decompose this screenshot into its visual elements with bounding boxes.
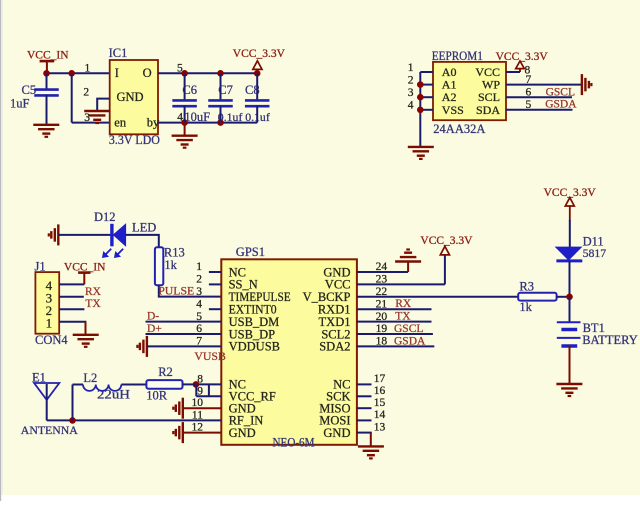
- wire: [158, 122, 257, 124]
- junction: [217, 119, 224, 126]
- svg-text:R3: R3: [519, 279, 534, 293]
- wire: [506, 84, 582, 86]
- svg-text:VCC_3.3V: VCC_3.3V: [420, 235, 473, 247]
- wire: [183, 407, 222, 409]
- svg-text:en: en: [114, 116, 127, 130]
- ground: [172, 123, 198, 148]
- wire: [147, 345, 221, 347]
- junction: [193, 381, 200, 388]
- svg-text:1k: 1k: [519, 300, 532, 314]
- svg-text:VCC_IN: VCC_IN: [27, 49, 69, 61]
- svg-text:TX: TX: [395, 311, 411, 323]
- svg-text:RX: RX: [85, 286, 102, 298]
- pin 2 stub: [209, 283, 221, 285]
- ground: [582, 74, 592, 95]
- wire: [357, 283, 445, 285]
- junction: [68, 70, 75, 77]
- pin stub: [357, 407, 372, 409]
- wire: [159, 285, 222, 296]
- junction: [217, 70, 224, 77]
- svg-text:3: 3: [84, 112, 90, 124]
- svg-text:1: 1: [408, 62, 414, 74]
- svg-text:VDDUSB: VDDUSB: [229, 340, 280, 354]
- svg-text:RX: RX: [395, 298, 412, 310]
- ground: [408, 147, 434, 159]
- svg-text:VCC_3.3V: VCC_3.3V: [496, 51, 549, 63]
- wire: [58, 234, 110, 236]
- svg-text:D12: D12: [94, 210, 116, 224]
- gps module GPS1: [221, 259, 357, 445]
- wire: [557, 296, 570, 298]
- svg-text:1: 1: [85, 63, 91, 75]
- ground: [73, 335, 99, 347]
- junction: [566, 294, 573, 301]
- svg-text:CON4: CON4: [35, 333, 68, 347]
- wire: [47, 419, 222, 421]
- pin stub: [357, 419, 372, 421]
- svg-text:2: 2: [408, 74, 414, 86]
- wire: [569, 297, 571, 323]
- pin stub: [357, 395, 372, 397]
- svg-text:I: I: [115, 66, 119, 80]
- svg-text:SDA: SDA: [476, 103, 500, 117]
- wire: [420, 96, 433, 98]
- svg-text:GND: GND: [229, 426, 256, 440]
- junction: [181, 70, 188, 77]
- svg-text:1k: 1k: [164, 258, 177, 272]
- ground: [33, 125, 59, 137]
- svg-text:17: 17: [374, 373, 386, 385]
- ground: [556, 384, 582, 396]
- wire: [85, 322, 87, 335]
- svg-text:3.3V LDO: 3.3V LDO: [109, 133, 160, 147]
- svg-text:GPS1: GPS1: [236, 245, 265, 259]
- ground: [173, 398, 183, 419]
- svg-text:1uF: 1uF: [10, 97, 30, 111]
- wire: [569, 261, 571, 297]
- svg-text:SDA2: SDA2: [319, 340, 350, 354]
- junction: [181, 119, 188, 126]
- ground: [173, 422, 183, 443]
- svg-text:VSS: VSS: [442, 103, 464, 117]
- wire: [357, 308, 432, 310]
- svg-text:5817: 5817: [583, 246, 607, 260]
- wire: [183, 383, 196, 385]
- wire: [357, 296, 518, 298]
- svg-text:NEO-6M: NEO-6M: [273, 435, 315, 449]
- wire: [59, 321, 86, 323]
- svg-text:1: 1: [196, 261, 202, 273]
- wire: [72, 385, 74, 421]
- svg-text:D+: D+: [147, 323, 162, 335]
- svg-text:2: 2: [196, 274, 202, 286]
- svg-text:4: 4: [408, 100, 414, 112]
- svg-text:D-: D-: [147, 310, 159, 322]
- svg-text:EEPROM1: EEPROM1: [432, 49, 483, 63]
- svg-text:GSDA: GSDA: [394, 335, 426, 347]
- svg-text:22uH: 22uH: [97, 388, 130, 402]
- svg-text:J1: J1: [35, 259, 46, 273]
- wire: [506, 109, 573, 111]
- svg-text:ANTENNA: ANTENNA: [21, 423, 78, 437]
- ground: [395, 250, 421, 273]
- eeprom EEPROM1: [433, 62, 506, 120]
- wire: [357, 271, 408, 273]
- wire: [569, 346, 571, 384]
- svg-text:10R: 10R: [146, 388, 168, 402]
- svg-text:13: 13: [374, 421, 386, 433]
- junction: [254, 70, 261, 77]
- ground: [84, 111, 110, 123]
- pin 1 stub: [209, 271, 221, 273]
- ground: [49, 224, 59, 245]
- wire: [420, 71, 433, 73]
- svg-text:15: 15: [374, 397, 386, 409]
- wire: [71, 73, 73, 122]
- pin 4 stub: [209, 308, 221, 310]
- svg-text:24AA32A: 24AA32A: [433, 122, 485, 136]
- wire: [357, 345, 434, 347]
- junction: [417, 94, 424, 101]
- svg-text:PULSE: PULSE: [158, 284, 194, 298]
- svg-text:C5: C5: [22, 83, 37, 97]
- wire: [158, 72, 257, 74]
- wire: [59, 283, 84, 285]
- wire: [506, 96, 572, 98]
- svg-text:14: 14: [374, 409, 386, 421]
- wire: [420, 109, 433, 111]
- wire: [420, 84, 433, 86]
- svg-text:3: 3: [408, 87, 414, 99]
- ground: [137, 336, 147, 357]
- wire: [183, 432, 222, 434]
- wire: [121, 384, 146, 386]
- junction: [417, 107, 424, 114]
- svg-text:2: 2: [83, 87, 89, 99]
- svg-text:VUSB: VUSB: [194, 349, 226, 363]
- wire: [195, 384, 197, 396]
- wire: [72, 122, 110, 124]
- wire: [208, 384, 210, 396]
- wire: [146, 333, 222, 335]
- wire: [357, 333, 433, 335]
- wire: [569, 220, 571, 247]
- svg-text:BATTERY: BATTERY: [582, 333, 638, 347]
- wire: [126, 235, 159, 247]
- svg-text:GSCL: GSCL: [394, 323, 423, 335]
- svg-text:GND: GND: [117, 90, 144, 104]
- wire: [357, 432, 372, 434]
- wire: [357, 321, 432, 323]
- wire: [146, 321, 222, 323]
- junction: [417, 81, 424, 88]
- svg-text:GSCL: GSCL: [546, 86, 575, 98]
- svg-text:VCC_3.3V: VCC_3.3V: [233, 48, 286, 60]
- wire: [506, 71, 520, 73]
- svg-text:LED: LED: [132, 221, 156, 235]
- svg-text:1: 1: [46, 315, 53, 330]
- wire: [97, 99, 110, 111]
- svg-text:16: 16: [374, 385, 386, 397]
- svg-text:TX: TX: [85, 298, 101, 310]
- wire: [59, 308, 84, 310]
- junction: [43, 70, 50, 77]
- junction: [69, 417, 76, 424]
- svg-text:3: 3: [196, 286, 202, 298]
- wire: [73, 384, 84, 386]
- connector J1: [35, 272, 59, 334]
- wire: [46, 72, 110, 74]
- svg-text:4: 4: [196, 298, 202, 310]
- voltage regulator IC1: [110, 60, 158, 134]
- wire: [419, 72, 421, 147]
- svg-text:GND: GND: [323, 426, 350, 440]
- wire: [370, 433, 372, 447]
- svg-text:GSDA: GSDA: [545, 99, 577, 111]
- svg-text:O: O: [143, 66, 152, 80]
- ground: [358, 446, 384, 458]
- svg-text:L2: L2: [83, 371, 97, 385]
- wire: [59, 296, 84, 298]
- pin stub: [357, 383, 372, 385]
- svg-text:10uF: 10uF: [184, 110, 210, 124]
- wire: [196, 395, 221, 397]
- svg-text:R2: R2: [158, 365, 173, 379]
- wire: [196, 383, 221, 385]
- svg-text:IC1: IC1: [109, 46, 128, 60]
